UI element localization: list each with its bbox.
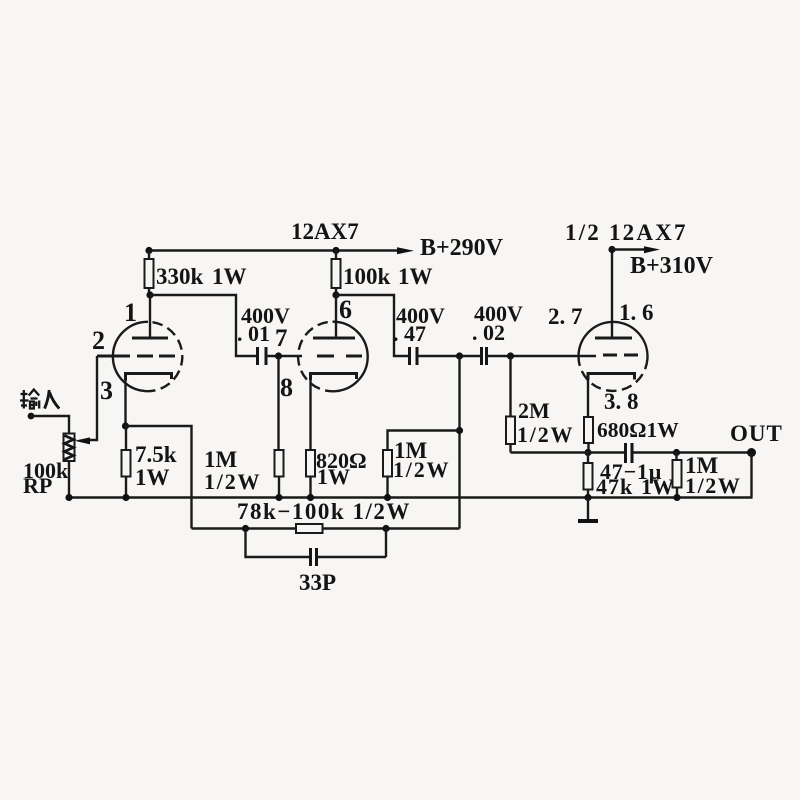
- triode V1b plate: [335, 295, 337, 338]
- node bus R3: [122, 494, 129, 501]
- capacitor C2 .47 400V: [408, 347, 411, 365]
- triode V1b cathode lead: [309, 378, 311, 450]
- node junction x459: [456, 352, 463, 359]
- wire cathode to feedback: [126, 426, 192, 529]
- svg-text:8: 8: [280, 373, 293, 402]
- node bus R5: [275, 494, 282, 501]
- svg-text:1/2W: 1/2W: [685, 473, 742, 498]
- svg-text:1/2W: 1/2W: [393, 457, 450, 482]
- arrow B+290V: [397, 247, 414, 254]
- capacitor C1 .017 400V: [256, 347, 259, 365]
- triode V2 envelope dashed: [578, 356, 647, 391]
- node 2M tap: [507, 352, 514, 359]
- node bus R10: [673, 494, 680, 501]
- wire top B+ rail: [149, 249, 404, 251]
- potentiometer RP 100k: [64, 434, 75, 462]
- svg-text:1. 6: 1. 6: [619, 300, 654, 325]
- triode V2 cathode lead: [587, 378, 589, 417]
- svg-text:1W: 1W: [135, 465, 170, 490]
- node bus R9: [584, 494, 591, 501]
- svg-text:6: 6: [339, 295, 352, 324]
- svg-text:7: 7: [275, 325, 288, 352]
- resistor R6 1M 1/2W: [383, 450, 392, 477]
- triode V1a envelope solid: [113, 322, 148, 391]
- triode V1a grid: [97, 355, 130, 358]
- node bus RP: [65, 494, 72, 501]
- node V1 plate: [146, 291, 153, 298]
- svg-text:. 01: . 01: [237, 321, 270, 346]
- triode V2 grid dashes: [603, 354, 640, 357]
- node V2 grid: [275, 352, 282, 359]
- triode V1b envelope dashed: [298, 322, 335, 392]
- wire C2 to C3: [417, 355, 481, 357]
- capacitor C4 47-1u: [624, 443, 627, 463]
- svg-text:12AX7: 12AX7: [291, 219, 359, 244]
- resistor R7 2M 1/2W: [509, 356, 511, 417]
- node bus R6: [384, 494, 391, 501]
- svg-text:1/2W: 1/2W: [204, 469, 261, 494]
- resistor R1 330k 1W: [148, 251, 150, 260]
- wire OUT down: [750, 453, 752, 498]
- wire node to feedback vertical: [458, 356, 460, 529]
- svg-text:B+310V: B+310V: [630, 253, 714, 279]
- node branch to R6: [456, 427, 463, 434]
- wire 33P branch: [246, 529, 310, 558]
- wire V2 plate to C2: [336, 295, 409, 356]
- svg-text:. 47: . 47: [393, 321, 426, 346]
- resistor R9 47k 1W: [587, 453, 589, 464]
- node V1 cathode: [122, 422, 129, 429]
- resistor R5 1M 1/2W (V2 grid leak): [275, 450, 284, 477]
- svg-text:1W: 1W: [641, 474, 674, 499]
- capacitor C3 .02 400V: [480, 347, 483, 365]
- node top rail left: [145, 247, 152, 254]
- label input terminal shu-ru (drawn strokes): [20, 390, 39, 409]
- capacitor C5 33P: [309, 548, 312, 566]
- svg-text:7.5k: 7.5k: [135, 442, 177, 467]
- svg-text:1W: 1W: [317, 464, 350, 489]
- svg-text:100k: 100k: [343, 264, 391, 289]
- triode V2 plate: [611, 250, 613, 339]
- wire ground bus: [69, 496, 753, 498]
- node cathode V2: [584, 449, 591, 456]
- resistor R3 7.5k 1W: [125, 426, 127, 450]
- triode V1a plate: [149, 295, 151, 338]
- svg-text:1/2 12AX7: 1/2 12AX7: [565, 220, 688, 245]
- triode V1b grid dashes: [317, 355, 362, 358]
- triode V1a envelope dashed: [145, 322, 182, 391]
- svg-text:1/2W: 1/2W: [517, 422, 574, 447]
- resistor R4 820ohm 1W: [306, 450, 315, 477]
- arrow B+310V: [644, 246, 660, 253]
- wire B+310 arrow line: [612, 248, 651, 250]
- svg-text:78k−100k 1/2W: 78k−100k 1/2W: [237, 499, 411, 524]
- svg-text:47k: 47k: [596, 474, 633, 499]
- svg-text:2. 7: 2. 7: [548, 304, 583, 329]
- svg-text:33P: 33P: [299, 570, 336, 595]
- svg-text:2M: 2M: [518, 398, 550, 423]
- wire cathode node line: [511, 451, 626, 453]
- svg-text:B+290V: B+290V: [420, 235, 504, 261]
- triode V1a cathode lead: [124, 378, 126, 426]
- svg-text:3. 8: 3. 8: [604, 389, 639, 414]
- triode V1b envelope solid: [333, 322, 368, 392]
- svg-text:OUT: OUT: [730, 421, 783, 446]
- resistor R11 78k-100k 1/2W: [296, 524, 323, 533]
- arrow RP wiper: [75, 437, 91, 444]
- node bus R4: [307, 494, 314, 501]
- node B+310: [608, 246, 615, 253]
- svg-text:3: 3: [100, 376, 113, 405]
- wire V1 grid down: [88, 356, 97, 440]
- node top rail V2 plate feed: [332, 247, 339, 254]
- svg-text:1W: 1W: [398, 264, 433, 289]
- wire V1 plate to C1: [150, 295, 257, 356]
- resistor R8 680ohm 1W: [584, 417, 593, 443]
- svg-text:330k: 330k: [156, 264, 204, 289]
- resistor R2 100k 1W: [335, 251, 337, 260]
- wire input to RP: [31, 416, 69, 434]
- resistor R10 1M 1/2W output: [675, 453, 677, 461]
- wire C3 to V2 grid: [487, 355, 596, 357]
- node feedback right: [382, 525, 389, 532]
- node OUT terminal: [747, 448, 756, 457]
- ground: [587, 498, 589, 521]
- wire V2 grid down to R5: [277, 356, 279, 450]
- svg-text:RP: RP: [23, 473, 52, 498]
- wire C1 to V2 grid: [266, 355, 302, 357]
- svg-text:680Ω1W: 680Ω1W: [597, 418, 679, 442]
- node V2 plate: [332, 291, 339, 298]
- svg-text:1W: 1W: [212, 264, 247, 289]
- svg-text:2: 2: [92, 326, 105, 355]
- input terminal node: [28, 413, 35, 420]
- svg-text:1: 1: [124, 298, 137, 327]
- triode V2 cathode: [588, 374, 635, 381]
- wire feedback line: [192, 527, 297, 529]
- node out junction: [673, 449, 680, 456]
- triode V2 envelope solid: [579, 322, 648, 359]
- node feedback left: [242, 525, 249, 532]
- wire branch to R6 1M: [388, 431, 460, 451]
- triode V1b cathode: [311, 374, 357, 381]
- triode V1a cathode: [126, 374, 172, 381]
- svg-text:. 02: . 02: [472, 320, 505, 345]
